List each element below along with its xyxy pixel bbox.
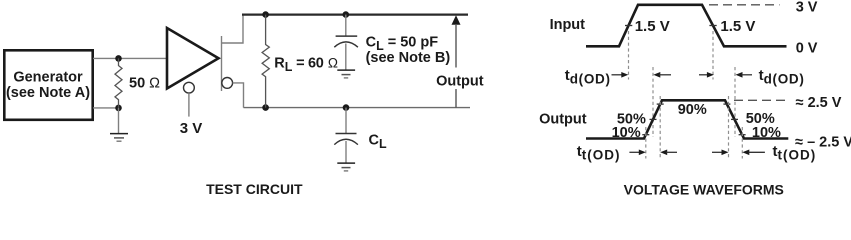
ground (generator) <box>118 108 120 133</box>
resistor RL <box>262 15 269 108</box>
td arrow right <box>736 72 743 78</box>
svg-text:3 V: 3 V <box>180 120 203 137</box>
tt arrow left <box>629 151 640 153</box>
svg-text:VOLTAGE WAVEFORMS: VOLTAGE WAVEFORMS <box>624 182 784 198</box>
node dot top rail / CL <box>343 11 350 18</box>
output waveform <box>586 100 788 138</box>
capacitor CL bottom <box>345 108 347 134</box>
node junction bottom of 50 ohm <box>115 105 122 112</box>
td arrow left <box>612 74 624 76</box>
capacitor CL top (50 pF) <box>345 15 347 36</box>
tt arrow right <box>742 150 749 156</box>
output probe arrow <box>452 15 461 25</box>
dashed output rise 10% <box>645 127 647 159</box>
svg-text:90%: 90% <box>678 102 707 118</box>
svg-text:1.5 V: 1.5 V <box>720 18 755 35</box>
svg-text:Output: Output <box>436 74 484 90</box>
node dot bottom rail / RL <box>262 104 269 111</box>
wire bottom rail <box>244 107 471 109</box>
svg-text:10%: 10% <box>752 125 781 141</box>
svg-text:Generator: Generator <box>13 69 83 85</box>
td arrow middle-right <box>699 74 709 76</box>
tick output fall 10% <box>739 134 746 136</box>
dashed input rise 50% <box>628 31 630 80</box>
resistor 50 ohm <box>115 58 122 108</box>
generator box <box>4 50 92 120</box>
ground (top CL) <box>337 69 355 71</box>
wire 3V stem <box>188 93 190 117</box>
dashed 3V level <box>709 4 780 6</box>
bubble output stage <box>222 78 233 89</box>
node dot top rail / RL <box>262 11 269 18</box>
tt arrow middle-left <box>660 150 667 156</box>
tick output fall 90% <box>723 103 730 105</box>
output stage bar <box>221 36 223 91</box>
wire top branch <box>222 15 244 43</box>
dashed output rise 90% <box>659 96 661 159</box>
wire generator bottom <box>93 107 119 109</box>
svg-text:TEST CIRCUIT: TEST CIRCUIT <box>206 181 303 197</box>
dashed 2.5V level <box>734 99 787 101</box>
tick 1.5V falling <box>709 25 716 27</box>
input waveform <box>586 5 787 47</box>
dashed output fall 90% <box>728 96 730 159</box>
svg-text:Input: Input <box>550 17 586 33</box>
tick output fall 50% <box>731 118 738 120</box>
dashed input fall 50% <box>712 31 714 80</box>
svg-text:Output: Output <box>539 111 587 127</box>
tick output rise 10% <box>642 134 649 136</box>
ground (bottom CL) <box>337 162 355 164</box>
wire bottom branch <box>233 83 244 108</box>
svg-text:(see Note B): (see Note B) <box>366 50 451 66</box>
dashed output fall 10% <box>741 127 743 159</box>
svg-text:0 V: 0 V <box>796 40 818 56</box>
node dot bottom rail / CL <box>343 104 350 111</box>
wire generator top to triangle <box>93 57 167 59</box>
svg-text:10%: 10% <box>612 125 641 141</box>
bubble on triangle (3V pin) <box>184 82 195 93</box>
dashed output rise 50% <box>652 67 654 137</box>
td arrow middle-left <box>653 72 660 78</box>
svg-text:3 V: 3 V <box>796 0 818 16</box>
buffer triangle U1 <box>167 28 219 89</box>
svg-text:1.5 V: 1.5 V <box>635 18 670 35</box>
tick output rise 90% <box>657 103 664 105</box>
svg-text:(see Note A): (see Note A) <box>6 85 90 101</box>
svg-text:50 Ω: 50 Ω <box>129 75 160 91</box>
wire top rail <box>242 14 468 16</box>
node junction top of 50 ohm <box>115 55 122 62</box>
dashed output fall 50% <box>734 67 736 137</box>
tick 1.5V rising <box>625 25 632 27</box>
tick output rise 50% <box>650 118 657 120</box>
tt arrow middle-right <box>712 151 724 153</box>
svg-text:≈ 2.5 V: ≈ 2.5 V <box>796 95 842 111</box>
